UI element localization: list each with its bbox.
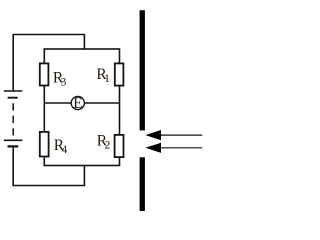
svg-text:R1: R1	[96, 66, 110, 85]
svg-text:E: E	[73, 95, 82, 112]
svg-text:R4: R4	[54, 137, 68, 156]
svg-text:R3: R3	[53, 70, 67, 89]
svg-text:R2: R2	[97, 133, 111, 152]
